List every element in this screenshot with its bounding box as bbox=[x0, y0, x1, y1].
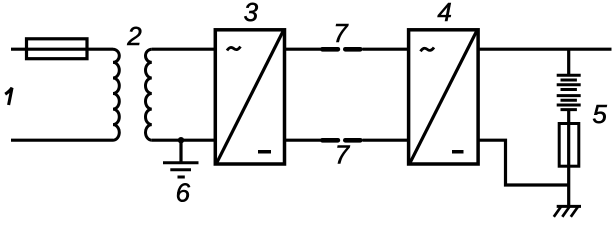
svg-text:3: 3 bbox=[244, 0, 259, 27]
svg-text:6: 6 bbox=[176, 178, 191, 208]
svg-text:2: 2 bbox=[126, 21, 142, 51]
svg-text:7: 7 bbox=[333, 18, 349, 48]
svg-text:5: 5 bbox=[592, 99, 607, 129]
svg-text:7: 7 bbox=[335, 140, 351, 170]
svg-text:4: 4 bbox=[437, 0, 451, 27]
